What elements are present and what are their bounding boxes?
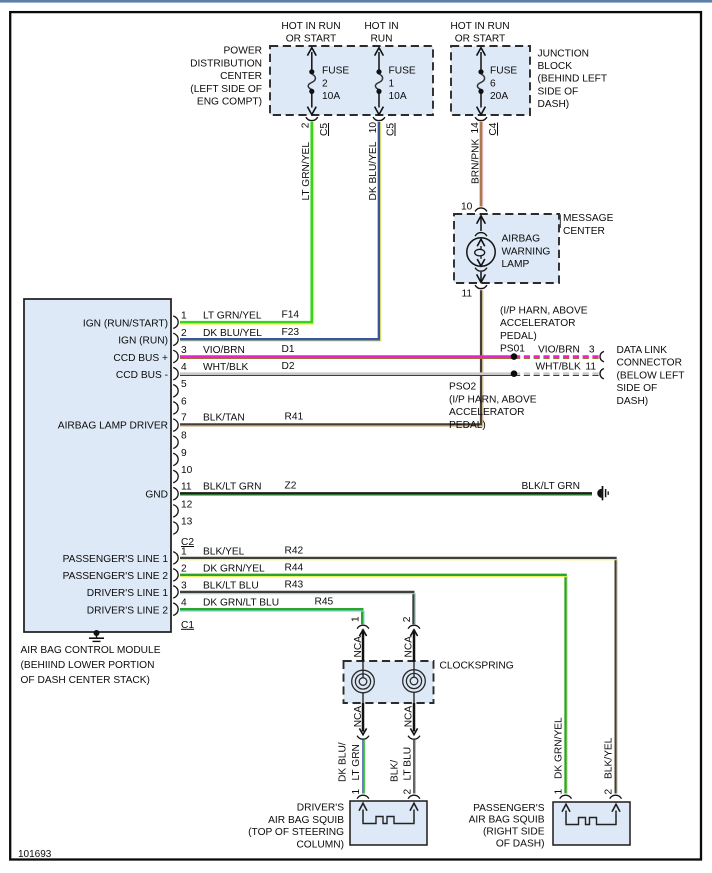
svg-text:DK BLU/YEL: DK BLU/YEL [368, 141, 379, 200]
svg-text:2: 2 [181, 563, 187, 574]
svg-text:10A: 10A [389, 91, 407, 102]
svg-text:FUSE: FUSE [490, 66, 517, 77]
svg-text:Z2: Z2 [285, 481, 297, 492]
svg-text:ENG COMPT): ENG COMPT) [197, 97, 262, 108]
svg-text:1: 1 [181, 311, 187, 322]
svg-text:10A: 10A [322, 91, 340, 102]
svg-text:DASH): DASH) [538, 99, 570, 110]
svg-text:10: 10 [461, 202, 473, 213]
svg-text:NCA: NCA [353, 706, 364, 728]
svg-text:(BELOW LEFT: (BELOW LEFT [617, 370, 685, 381]
svg-text:5: 5 [181, 379, 187, 390]
svg-text:C5: C5 [386, 123, 397, 136]
svg-text:2: 2 [403, 789, 414, 795]
svg-text:CCD BUS +: CCD BUS + [113, 353, 168, 364]
svg-text:LT GRN/YEL: LT GRN/YEL [301, 142, 312, 201]
svg-text:LT GRN: LT GRN [351, 744, 362, 780]
svg-text:NCA: NCA [404, 706, 415, 728]
svg-text:6: 6 [181, 396, 187, 407]
svg-text:DK GRN/YEL: DK GRN/YEL [554, 717, 565, 779]
svg-text:DK GRN/YEL: DK GRN/YEL [203, 563, 265, 574]
svg-text:BLK/LT BLU: BLK/LT BLU [203, 580, 259, 591]
svg-text:F23: F23 [282, 327, 300, 338]
svg-text:WARNING: WARNING [502, 246, 551, 257]
svg-text:RUN: RUN [370, 34, 392, 45]
svg-text:BRN/PNK: BRN/PNK [470, 139, 481, 184]
svg-text:LAMP: LAMP [502, 259, 530, 270]
svg-text:CENTER: CENTER [220, 71, 262, 82]
svg-text:2: 2 [181, 328, 187, 339]
svg-text:DATA LINK: DATA LINK [617, 345, 668, 356]
svg-text:3: 3 [589, 345, 595, 356]
svg-text:(I/P HARN, ABOVE: (I/P HARN, ABOVE [449, 394, 537, 405]
svg-text:IGN (RUN): IGN (RUN) [118, 336, 168, 347]
svg-text:DK BLU/: DK BLU/ [338, 742, 349, 782]
svg-text:C5: C5 [319, 123, 330, 136]
svg-text:BLK/LT GRN: BLK/LT GRN [203, 482, 262, 493]
svg-text:HOT IN RUN: HOT IN RUN [450, 21, 509, 32]
svg-text:OR START: OR START [455, 34, 506, 45]
svg-text:DRIVER'S LINE 1: DRIVER'S LINE 1 [87, 588, 169, 599]
svg-text:1: 1 [554, 789, 565, 795]
svg-text:SIDE OF: SIDE OF [538, 86, 579, 97]
svg-text:1: 1 [351, 789, 362, 795]
svg-text:7: 7 [181, 413, 187, 424]
svg-text:BLK/YEL: BLK/YEL [604, 737, 615, 779]
svg-text:MESSAGE: MESSAGE [563, 213, 614, 224]
svg-text:9: 9 [181, 448, 187, 459]
svg-text:20A: 20A [490, 91, 508, 102]
svg-text:PASSENGER'S LINE 2: PASSENGER'S LINE 2 [63, 571, 169, 582]
svg-text:ACCELERATOR: ACCELERATOR [500, 318, 575, 329]
svg-text:AIR BAG SQUIB: AIR BAG SQUIB [469, 815, 545, 826]
svg-text:WHT/BLK: WHT/BLK [203, 362, 248, 373]
svg-text:R43: R43 [285, 579, 304, 590]
svg-text:R44: R44 [285, 562, 304, 573]
svg-text:D2: D2 [282, 361, 295, 372]
svg-text:3: 3 [181, 580, 187, 591]
svg-text:JUNCTION: JUNCTION [538, 48, 590, 59]
svg-text:AIRBAG: AIRBAG [502, 234, 541, 245]
svg-text:LT BLU: LT BLU [403, 747, 414, 781]
svg-text:(BEHIIND LOWER PORTION: (BEHIIND LOWER PORTION [21, 660, 155, 671]
svg-text:CCD BUS -: CCD BUS - [116, 370, 168, 381]
svg-text:F14: F14 [282, 310, 300, 321]
svg-text:3: 3 [181, 345, 187, 356]
svg-text:1: 1 [351, 616, 362, 622]
svg-text:COLUMN): COLUMN) [296, 839, 344, 850]
svg-text:BLK/: BLK/ [390, 760, 401, 782]
svg-text:101693: 101693 [18, 849, 52, 860]
svg-text:2: 2 [322, 78, 328, 89]
svg-text:C4: C4 [488, 122, 499, 135]
svg-text:4: 4 [181, 598, 187, 609]
svg-text:6: 6 [490, 78, 496, 89]
svg-text:VIO/BRN: VIO/BRN [203, 345, 245, 356]
svg-text:DRIVER'S LINE 2: DRIVER'S LINE 2 [87, 606, 169, 617]
svg-text:10: 10 [181, 465, 193, 476]
svg-text:13: 13 [181, 516, 193, 527]
svg-text:GND: GND [145, 490, 168, 501]
svg-text:CLOCKSPRING: CLOCKSPRING [440, 661, 514, 672]
svg-text:BLK/YEL: BLK/YEL [203, 546, 245, 557]
svg-text:AIR BAG SQUIB: AIR BAG SQUIB [268, 815, 344, 826]
svg-text:4: 4 [181, 362, 187, 373]
svg-text:AIRBAG LAMP DRIVER: AIRBAG LAMP DRIVER [58, 421, 168, 432]
svg-text:R42: R42 [285, 545, 304, 556]
svg-text:POWER: POWER [224, 46, 263, 57]
svg-text:11: 11 [181, 482, 192, 493]
svg-text:(RIGHT SIDE: (RIGHT SIDE [483, 827, 545, 838]
svg-text:DRIVER'S: DRIVER'S [297, 803, 344, 814]
svg-text:OF DASH): OF DASH) [496, 839, 545, 850]
svg-text:2: 2 [402, 616, 413, 622]
svg-text:8: 8 [181, 431, 187, 442]
svg-text:DK GRN/LT BLU: DK GRN/LT BLU [203, 598, 279, 609]
svg-text:ACCELERATOR: ACCELERATOR [449, 407, 524, 418]
svg-text:BLK/TAN: BLK/TAN [203, 413, 245, 424]
svg-text:NCA: NCA [353, 636, 364, 658]
svg-text:BLK/LT GRN: BLK/LT GRN [522, 481, 581, 492]
svg-text:14: 14 [470, 122, 481, 134]
svg-text:(I/P HARN, ABOVE: (I/P HARN, ABOVE [500, 306, 588, 317]
svg-text:PASSENGER'S: PASSENGER'S [473, 803, 545, 814]
svg-text:DK BLU/YEL: DK BLU/YEL [203, 328, 262, 339]
svg-text:PS01: PS01 [500, 343, 525, 354]
svg-text:R41: R41 [285, 412, 304, 423]
svg-text:(LEFT SIDE OF: (LEFT SIDE OF [190, 84, 262, 95]
svg-text:D1: D1 [282, 344, 295, 355]
svg-text:C1: C1 [181, 620, 194, 631]
svg-text:2: 2 [301, 122, 312, 128]
svg-text:FUSE: FUSE [322, 66, 349, 77]
svg-text:PEDAL): PEDAL) [449, 420, 486, 431]
svg-text:SIDE OF: SIDE OF [617, 383, 658, 394]
svg-text:PASSENGER'S LINE 1: PASSENGER'S LINE 1 [63, 554, 169, 565]
svg-text:DASH): DASH) [617, 396, 649, 407]
svg-text:LT GRN/YEL: LT GRN/YEL [203, 311, 262, 322]
svg-text:C2: C2 [181, 537, 194, 548]
svg-text:BLOCK: BLOCK [538, 61, 573, 72]
svg-text:PEDAL): PEDAL) [500, 331, 537, 342]
svg-text:DISTRIBUTION: DISTRIBUTION [190, 58, 262, 69]
svg-text:IGN (RUN/START): IGN (RUN/START) [83, 319, 168, 330]
svg-text:OF DASH CENTER STACK): OF DASH CENTER STACK) [21, 675, 150, 686]
svg-text:PSO2: PSO2 [449, 382, 477, 393]
svg-text:11: 11 [462, 289, 473, 300]
svg-text:(BEHIND LEFT: (BEHIND LEFT [538, 74, 608, 85]
svg-text:VIO/BRN: VIO/BRN [538, 345, 580, 356]
svg-text:FUSE: FUSE [389, 66, 416, 77]
svg-text:(TOP OF STEERING: (TOP OF STEERING [248, 827, 344, 838]
svg-text:1: 1 [389, 78, 395, 89]
svg-text:HOT IN RUN: HOT IN RUN [281, 21, 340, 32]
svg-text:10: 10 [368, 122, 379, 134]
svg-text:CENTER: CENTER [563, 226, 605, 237]
svg-text:AIR BAG CONTROL MODULE: AIR BAG CONTROL MODULE [21, 645, 161, 656]
svg-text:HOT IN: HOT IN [364, 21, 398, 32]
svg-text:OR START: OR START [286, 34, 337, 45]
svg-text:CONNECTOR: CONNECTOR [617, 358, 682, 369]
svg-text:11: 11 [585, 361, 596, 372]
svg-text:2: 2 [604, 789, 615, 795]
svg-text:NCA: NCA [404, 636, 415, 658]
svg-text:12: 12 [181, 499, 193, 510]
svg-text:WHT/BLK: WHT/BLK [536, 361, 581, 372]
svg-text:R45: R45 [315, 597, 334, 608]
